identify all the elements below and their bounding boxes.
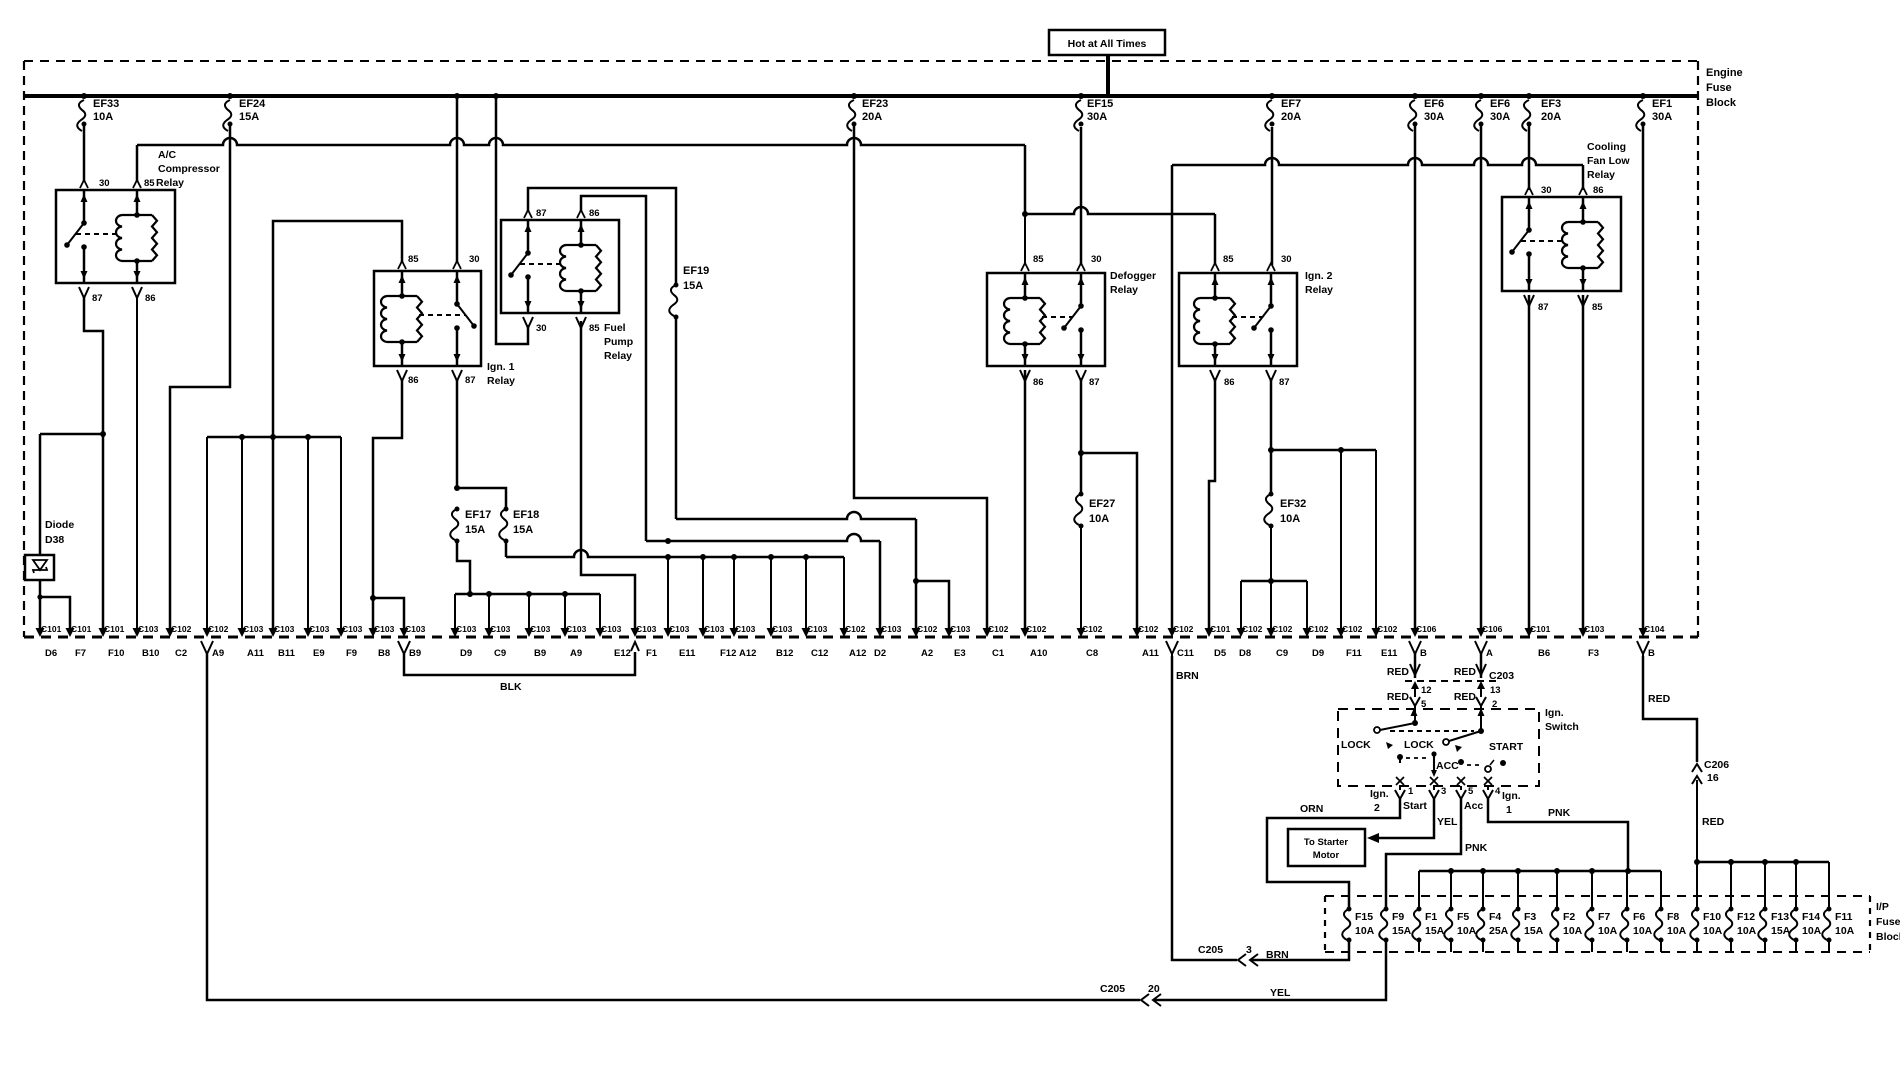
svg-text:C102: C102 xyxy=(208,624,229,634)
EF32 output bracket D8/C9/D9 xyxy=(1241,580,1307,583)
svg-text:15A: 15A xyxy=(513,524,533,536)
connector C102 pin E11 xyxy=(1372,628,1381,637)
svg-text:20A: 20A xyxy=(1541,111,1561,123)
Fuel pump 86 top wire xyxy=(581,196,646,541)
fuse EF18 15A xyxy=(504,507,509,512)
svg-text:F10: F10 xyxy=(108,648,124,659)
svg-text:30: 30 xyxy=(1541,185,1552,196)
svg-text:EF3: EF3 xyxy=(1541,98,1561,110)
svg-text:B6: B6 xyxy=(1538,648,1550,659)
svg-text:C101: C101 xyxy=(1210,624,1231,634)
svg-text:15A: 15A xyxy=(1425,925,1445,937)
svg-text:EF33: EF33 xyxy=(93,98,119,110)
svg-text:Relay: Relay xyxy=(1110,284,1138,296)
wire EF18 out xyxy=(505,541,508,557)
wire line165: C11 riser to Cooling Fan 86 xyxy=(1171,165,1174,629)
svg-text:Ign.: Ign. xyxy=(1545,707,1564,719)
svg-text:B8: B8 xyxy=(378,648,390,659)
svg-text:C12: C12 xyxy=(811,648,828,659)
svg-text:D38: D38 xyxy=(45,534,64,546)
connector C103 pin B9 xyxy=(400,628,409,637)
svg-text:Acc: Acc xyxy=(1464,800,1483,812)
svg-text:C103: C103 xyxy=(274,624,295,634)
connector C102 pin D9 xyxy=(1303,628,1312,637)
pin 87 Defogger xyxy=(1076,370,1086,384)
wire diode to D6 xyxy=(39,580,42,629)
svg-text:EF27: EF27 xyxy=(1089,498,1115,510)
svg-text:C102: C102 xyxy=(917,624,938,634)
svg-text:Fuse: Fuse xyxy=(1706,82,1732,94)
svg-text:A12: A12 xyxy=(849,648,866,659)
svg-text:A2: A2 xyxy=(921,648,933,659)
svg-text:F8: F8 xyxy=(1667,911,1679,923)
svg-text:D5: D5 xyxy=(1214,648,1227,659)
svg-text:Block: Block xyxy=(1876,931,1900,943)
Ign1 86 to B8/B9 xyxy=(373,380,402,629)
svg-text:C103: C103 xyxy=(735,624,756,634)
wire E11b drop xyxy=(1375,450,1377,629)
wire branch to F7 xyxy=(40,597,70,629)
svg-text:START: START xyxy=(1489,741,1524,753)
fuse F15 10A xyxy=(1342,909,1350,940)
IP RED bus xyxy=(1694,859,1700,865)
wire ORN: ign2 to F15 xyxy=(1267,799,1400,909)
svg-text:B11: B11 xyxy=(278,648,296,659)
svg-text:RED: RED xyxy=(1648,693,1671,705)
wire A9 drop2 xyxy=(564,594,566,629)
wire E9 drop xyxy=(307,437,309,629)
svg-text:C103: C103 xyxy=(807,624,828,634)
svg-text:1: 1 xyxy=(1408,786,1414,797)
svg-text:C206: C206 xyxy=(1704,759,1729,771)
wire bus to Ign1 30 xyxy=(454,93,460,99)
svg-text:30: 30 xyxy=(1091,254,1102,265)
svg-text:87: 87 xyxy=(92,293,103,304)
connector C102 pin C11 xyxy=(1168,628,1177,637)
svg-text:C9: C9 xyxy=(494,648,506,659)
wire C8 drop xyxy=(1080,526,1082,629)
connector C103 pin A9 xyxy=(561,628,570,637)
svg-text:C102: C102 xyxy=(1082,624,1103,634)
svg-text:C8: C8 xyxy=(1086,648,1098,659)
contact START xyxy=(1500,760,1506,766)
relay Fuel Pump xyxy=(501,220,619,313)
svg-text:EF24: EF24 xyxy=(239,98,266,110)
pin 86 Ign1 xyxy=(397,370,407,384)
svg-text:1: 1 xyxy=(1506,804,1512,816)
svg-text:86: 86 xyxy=(1593,185,1604,196)
Ign1 87 to EF17/EF18 xyxy=(456,380,459,488)
svg-text:10A: 10A xyxy=(1089,513,1109,525)
svg-text:C103: C103 xyxy=(374,624,395,634)
fuse F6 10A xyxy=(1620,909,1628,940)
svg-text:C104: C104 xyxy=(1644,624,1665,634)
svg-text:C102: C102 xyxy=(1173,624,1194,634)
connector C102 pin A11 xyxy=(1133,628,1142,637)
svg-text:F14: F14 xyxy=(1802,911,1820,923)
bus main power xyxy=(24,94,1698,98)
svg-text:12: 12 xyxy=(1421,685,1432,696)
connector C103 pin F3 xyxy=(1579,628,1588,637)
connector C101 pin F7 xyxy=(66,628,75,637)
svg-text:85: 85 xyxy=(1223,254,1234,265)
relay Defogger xyxy=(987,273,1105,366)
relay Ign 2 xyxy=(1179,273,1297,366)
svg-text:Defogger: Defogger xyxy=(1110,270,1156,282)
svg-text:Hot at All Times: Hot at All Times xyxy=(1068,38,1147,50)
svg-text:10A: 10A xyxy=(1280,513,1300,525)
pin 86 A/C xyxy=(132,287,142,301)
svg-text:87: 87 xyxy=(1089,377,1100,388)
svg-text:4: 4 xyxy=(1495,786,1501,797)
svg-text:F6: F6 xyxy=(1633,911,1645,923)
wire branch to diode xyxy=(40,433,103,436)
svg-text:C101: C101 xyxy=(71,624,92,634)
svg-text:C103: C103 xyxy=(1584,624,1605,634)
bus437 horizontal xyxy=(207,436,341,439)
svg-text:C106: C106 xyxy=(1416,624,1437,634)
svg-text:F11: F11 xyxy=(1346,648,1363,659)
wire EF7 to Ign2 30 xyxy=(1271,127,1274,265)
svg-text:EF6: EF6 xyxy=(1424,98,1444,110)
connector C102 pin A12 xyxy=(840,628,849,637)
svg-text:Compressor: Compressor xyxy=(158,163,220,175)
svg-text:C103: C103 xyxy=(772,624,793,634)
svg-text:To Starter: To Starter xyxy=(1304,837,1348,848)
svg-text:C102: C102 xyxy=(1138,624,1159,634)
svg-text:3: 3 xyxy=(1441,786,1446,797)
wire EF1 to C104 B xyxy=(1642,123,1645,629)
connector C102 pin F11 xyxy=(1337,628,1346,637)
fuse EF15 30A xyxy=(1078,93,1084,99)
svg-text:F11: F11 xyxy=(1835,911,1853,923)
svg-text:A9: A9 xyxy=(570,648,582,659)
bus594 xyxy=(455,593,600,596)
wire hot feed xyxy=(1106,55,1110,96)
svg-text:30A: 30A xyxy=(1490,111,1510,123)
svg-text:87: 87 xyxy=(465,375,476,386)
svg-text:30: 30 xyxy=(1281,254,1292,265)
svg-text:Start: Start xyxy=(1403,800,1427,812)
svg-text:F12: F12 xyxy=(1737,911,1755,923)
Defogger 87 to EF27/C8 and A11 xyxy=(1080,378,1083,494)
svg-text:EF32: EF32 xyxy=(1280,498,1306,510)
fuse F9 15A xyxy=(1379,909,1387,940)
svg-text:Fuse: Fuse xyxy=(1876,916,1900,928)
fuse F5 10A xyxy=(1444,909,1452,940)
svg-text:PNK: PNK xyxy=(1548,807,1571,819)
svg-text:C103: C103 xyxy=(243,624,264,634)
svg-text:LOCK: LOCK xyxy=(1404,739,1434,751)
svg-text:F7: F7 xyxy=(1598,911,1610,923)
svg-text:B: B xyxy=(1420,648,1427,659)
node EF17/EF18 split xyxy=(454,485,460,491)
connector C103 pin E12 xyxy=(596,628,605,637)
svg-text:YEL: YEL xyxy=(1270,987,1291,999)
svg-text:10A: 10A xyxy=(1355,925,1375,937)
wire A/C 86 to B10 xyxy=(136,297,138,629)
svg-text:30A: 30A xyxy=(1087,111,1107,123)
svg-text:A11: A11 xyxy=(1142,648,1160,659)
relay A/C Compressor xyxy=(56,190,175,283)
svg-text:Relay: Relay xyxy=(156,177,184,189)
svg-text:Fan Low: Fan Low xyxy=(1587,155,1630,167)
svg-text:85: 85 xyxy=(144,178,155,189)
Defogger 86 to A10 xyxy=(1024,370,1027,629)
svg-text:C103: C103 xyxy=(138,624,159,634)
svg-text:10A: 10A xyxy=(1598,925,1618,937)
connector C103 pin F1 xyxy=(631,628,640,637)
svg-text:10A: 10A xyxy=(1802,925,1822,937)
relay Cooling Fan Low xyxy=(1502,197,1621,291)
svg-text:C103: C103 xyxy=(405,624,426,634)
svg-text:85: 85 xyxy=(1033,254,1044,265)
svg-text:C103: C103 xyxy=(669,624,690,634)
wire to B9 xyxy=(373,598,404,629)
pin 85 Fuel xyxy=(576,317,586,331)
wire D8 drop xyxy=(1240,581,1242,629)
connector C103 pin E9 xyxy=(304,628,313,637)
svg-text:10A: 10A xyxy=(1835,925,1855,937)
svg-text:D2: D2 xyxy=(874,648,886,659)
wire C9 drop xyxy=(488,594,490,629)
svg-text:A: A xyxy=(1486,648,1493,659)
svg-text:EF18: EF18 xyxy=(513,509,539,521)
wire to diode top xyxy=(39,434,42,555)
svg-text:30: 30 xyxy=(99,178,110,189)
wire E11 drop xyxy=(667,557,669,629)
fuse F13 15A xyxy=(1758,909,1766,940)
svg-text:C9: C9 xyxy=(1276,648,1288,659)
svg-text:15A: 15A xyxy=(1524,925,1544,937)
fuse EF32 10A xyxy=(1269,492,1274,497)
svg-text:EF17: EF17 xyxy=(465,509,491,521)
svg-text:B9: B9 xyxy=(534,648,546,659)
connector C103 pin E3 xyxy=(945,628,954,637)
wire EF6b to C106 A xyxy=(1480,123,1483,629)
connector C103 pin A12 xyxy=(730,628,739,637)
wire EF19 to A2 xyxy=(676,512,916,519)
Cooling fan 85 to F3 xyxy=(1582,295,1585,629)
connector C102 pin C2 xyxy=(166,628,175,637)
Fuel pump 87 feed to EF19 xyxy=(528,188,676,285)
svg-text:86: 86 xyxy=(1033,377,1044,388)
svg-text:Ign. 2: Ign. 2 xyxy=(1305,270,1333,282)
svg-text:C2: C2 xyxy=(175,648,187,659)
ignition switch box xyxy=(1338,709,1539,786)
svg-text:30: 30 xyxy=(536,323,547,334)
svg-text:F13: F13 xyxy=(1771,911,1789,923)
svg-text:EF1: EF1 xyxy=(1652,98,1672,110)
svg-text:10A: 10A xyxy=(1737,925,1757,937)
svg-text:RED: RED xyxy=(1454,691,1477,703)
wire EF24 down to C2 xyxy=(170,123,230,629)
fuse F4 25A xyxy=(1476,909,1484,940)
svg-text:C205: C205 xyxy=(1198,944,1223,956)
fuse F3 15A xyxy=(1511,909,1519,940)
svg-text:30A: 30A xyxy=(1652,111,1672,123)
wire A2 drop xyxy=(915,519,918,629)
wire YEL: start to starter motor xyxy=(1379,799,1434,838)
connector C103 pin B9 xyxy=(525,628,534,637)
node F11 tap xyxy=(1338,447,1344,453)
svg-text:15A: 15A xyxy=(239,111,259,123)
connector C102 pin C8 xyxy=(1077,628,1086,637)
bus557 EF18 net xyxy=(506,550,844,557)
svg-text:F9: F9 xyxy=(1392,911,1404,923)
svg-text:15A: 15A xyxy=(1392,925,1412,937)
fuse EF6 30A xyxy=(1478,93,1484,99)
svg-text:87: 87 xyxy=(1279,377,1290,388)
wire to Defogger 85 xyxy=(1024,214,1026,265)
svg-text:10A: 10A xyxy=(1703,925,1723,937)
wire A/C 87 to F10 xyxy=(84,297,103,629)
wire D9 drop xyxy=(454,594,456,629)
connector C106 pin A xyxy=(1477,628,1486,637)
fuse F8 10A xyxy=(1654,909,1662,940)
node E11/line541 xyxy=(665,538,671,544)
svg-text:10A: 10A xyxy=(1633,925,1653,937)
wire line145 drop xyxy=(1024,145,1027,214)
fuse EF23 20A xyxy=(851,93,857,99)
fuse EF27 10A xyxy=(1079,492,1084,497)
svg-text:A/C: A/C xyxy=(158,149,177,161)
svg-text:B12: B12 xyxy=(776,648,793,659)
svg-text:B9: B9 xyxy=(409,648,421,659)
wire to A11 xyxy=(1081,453,1137,629)
fuse EF33 10A xyxy=(81,93,87,99)
svg-text:C103: C103 xyxy=(456,624,477,634)
ign switch output pins xyxy=(1399,786,1401,790)
svg-text:C1: C1 xyxy=(992,648,1005,659)
svg-text:E3: E3 xyxy=(954,648,966,659)
connector C101 pin D5 xyxy=(1205,628,1214,637)
wire PNK: ign1 to IP bus xyxy=(1488,799,1628,871)
wire to EF18 xyxy=(457,488,506,509)
svg-text:10A: 10A xyxy=(93,111,113,123)
fuse EF19 15A xyxy=(674,283,679,288)
wire EF17 out xyxy=(457,541,470,594)
connector C103 pin D2 xyxy=(876,628,885,637)
ign switch pole B (lock/start) xyxy=(1411,708,1418,716)
svg-text:A12: A12 xyxy=(739,648,756,659)
svg-text:C102: C102 xyxy=(1026,624,1047,634)
relay Ign 1 xyxy=(374,271,481,366)
svg-text:D9: D9 xyxy=(460,648,472,659)
svg-text:86: 86 xyxy=(589,208,600,219)
svg-text:BRN: BRN xyxy=(1176,670,1199,682)
svg-text:15A: 15A xyxy=(1771,925,1791,937)
wire EF33 to A/C relay 30 xyxy=(83,123,86,181)
connector C102 pin C1 xyxy=(983,628,992,637)
wire D2 drop xyxy=(879,541,882,629)
node 103,434 xyxy=(100,431,106,437)
connector C102 pin A9 xyxy=(203,628,212,637)
wire F11 drop xyxy=(1340,450,1342,629)
node defog87 split xyxy=(1078,450,1084,456)
connector C103 pin B12 xyxy=(767,628,776,637)
svg-text:C101: C101 xyxy=(104,624,125,634)
wire D9b drop xyxy=(1306,581,1308,629)
wire YEL: A9 long run to C205-20 xyxy=(207,654,1140,1000)
svg-text:C103: C103 xyxy=(309,624,330,634)
wire Ign1 85 feed xyxy=(273,221,402,629)
connector C101 pin B6 xyxy=(1525,628,1534,637)
fuse EF6 30A xyxy=(1412,93,1418,99)
wire EF3 to Cooling Fan 30 xyxy=(1528,123,1531,190)
svg-text:86: 86 xyxy=(145,293,156,304)
ign switch pole A xyxy=(1478,728,1484,734)
wire line145 horizontal xyxy=(137,138,1025,145)
connector C103 pin C9 xyxy=(485,628,494,637)
Hot at All Times box xyxy=(1049,30,1165,55)
svg-text:RED: RED xyxy=(1387,666,1410,678)
wire A12b drop xyxy=(843,557,845,629)
svg-text:Block: Block xyxy=(1706,97,1737,109)
Ign2 86 to D5 xyxy=(1209,378,1215,629)
pin 85 Cooling xyxy=(1578,295,1588,309)
svg-text:Fuel: Fuel xyxy=(604,322,626,334)
svg-text:EF7: EF7 xyxy=(1281,98,1301,110)
wire A11 drop xyxy=(241,437,243,629)
svg-text:10A: 10A xyxy=(1457,925,1477,937)
wire BRN: C11 to C205-3 to F15 xyxy=(1172,656,1237,960)
ign switch contacts xyxy=(1397,754,1403,760)
svg-text:E12: E12 xyxy=(614,648,631,659)
connector C106 pin B xyxy=(1411,628,1420,637)
connector C103 pin D9 xyxy=(451,628,460,637)
svg-text:C11: C11 xyxy=(1177,648,1195,659)
svg-text:YEL: YEL xyxy=(1437,816,1458,828)
svg-text:C102: C102 xyxy=(988,624,1009,634)
svg-text:ACC: ACC xyxy=(1436,760,1459,772)
svg-text:C103: C103 xyxy=(566,624,587,634)
svg-text:15A: 15A xyxy=(465,524,485,536)
fuse EF1 30A xyxy=(1640,93,1646,99)
svg-text:87: 87 xyxy=(536,208,547,219)
svg-text:86: 86 xyxy=(1224,377,1235,388)
fuse F11 10A xyxy=(1822,909,1830,940)
svg-text:20A: 20A xyxy=(1281,111,1301,123)
wire B12 drop xyxy=(770,557,772,629)
svg-text:LOCK: LOCK xyxy=(1341,739,1371,751)
connector C103 pin F12 xyxy=(699,628,708,637)
wire to Ign2 85 xyxy=(1214,214,1217,265)
svg-text:F3: F3 xyxy=(1588,648,1599,659)
svg-text:Relay: Relay xyxy=(1305,284,1333,296)
svg-text:RED: RED xyxy=(1387,691,1410,703)
svg-text:Engine: Engine xyxy=(1706,67,1743,79)
Cooling fan 87 to B6 xyxy=(1528,295,1531,629)
wire EF6a to C106 B xyxy=(1414,123,1417,629)
wire A9 drop xyxy=(206,437,208,629)
IP PNK bus xyxy=(1419,870,1661,873)
svg-text:RED: RED xyxy=(1454,666,1477,678)
svg-text:F9: F9 xyxy=(346,648,357,659)
pin 30 Fuel xyxy=(523,317,533,331)
svg-text:Ign.: Ign. xyxy=(1502,790,1521,802)
svg-text:A10: A10 xyxy=(1030,648,1047,659)
connector C103 pin B11 xyxy=(269,628,278,637)
svg-text:F2: F2 xyxy=(1563,911,1575,923)
svg-text:85: 85 xyxy=(1592,302,1603,313)
wire EF15 to Defogger 30 xyxy=(1080,127,1083,265)
svg-text:F15: F15 xyxy=(1355,911,1373,923)
svg-text:16: 16 xyxy=(1707,772,1719,784)
connector C103 pin C12 xyxy=(802,628,811,637)
svg-text:I/P: I/P xyxy=(1876,901,1889,913)
Fuel pump 85 to F1 xyxy=(581,321,635,629)
